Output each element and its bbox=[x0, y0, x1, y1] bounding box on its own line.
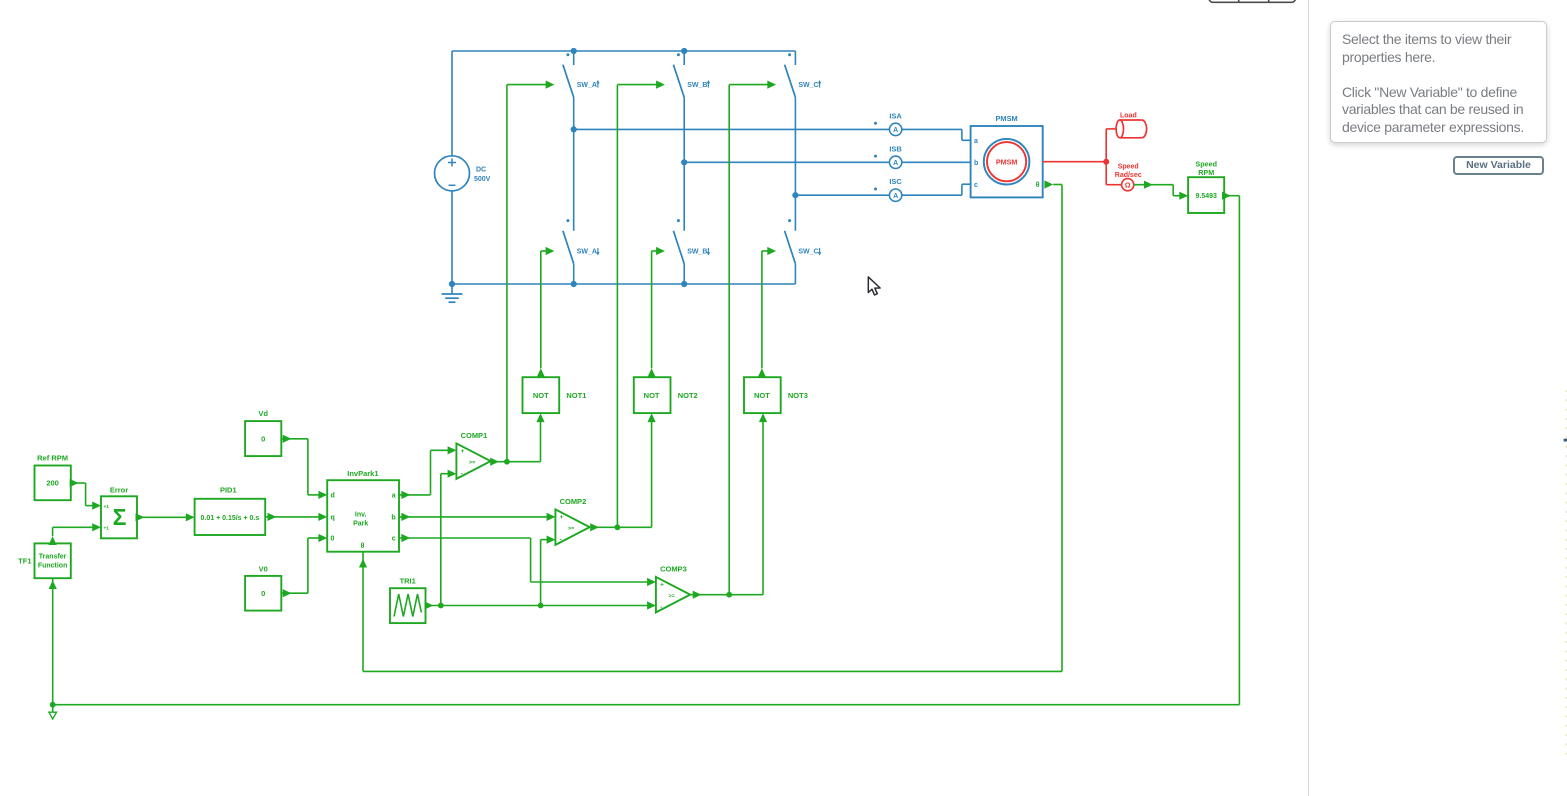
switch SW_C&#8593; top bbox=[785, 51, 822, 97]
switch SW_B&#8593; top bbox=[673, 51, 710, 97]
svg-text:9.5493: 9.5493 bbox=[1195, 193, 1217, 200]
wire to load bbox=[1106, 129, 1116, 162]
node shaft junction bbox=[1103, 159, 1109, 165]
source V0 0 bbox=[245, 564, 281, 610]
wire InvPark1 b to COMP2 bbox=[399, 513, 555, 521]
svg-text:PID1: PID1 bbox=[220, 486, 237, 495]
source Ref RPM 200 bbox=[35, 453, 71, 500]
wire feedback to TF1 bbox=[49, 579, 57, 705]
svg-text:DC: DC bbox=[476, 166, 486, 173]
node bottom bus / leg A bbox=[571, 281, 577, 287]
svg-text:+1: +1 bbox=[104, 526, 110, 532]
summer Error bbox=[101, 486, 137, 539]
triangle source TRI1 bbox=[390, 577, 426, 624]
wire NOT3 output to gate bbox=[758, 247, 776, 377]
comparator COMP1 bbox=[456, 431, 490, 479]
wire NOT1 output to gate bbox=[537, 247, 555, 377]
wire top DC bus bbox=[452, 50, 795, 52]
svg-text:SW_C: SW_C bbox=[798, 248, 818, 255]
wire V0 to InvPark1 0 bbox=[281, 534, 327, 597]
wire TF1 to Error bbox=[49, 523, 102, 545]
svg-text:Speed: Speed bbox=[1118, 164, 1139, 171]
toolbar fragment top right bbox=[1209, 0, 1296, 2]
wire Error to PID1 bbox=[136, 513, 195, 521]
svg-text:SW_A: SW_A bbox=[577, 82, 597, 89]
node phase b tap bbox=[681, 159, 687, 165]
wire InvPark1 a to COMP1 bbox=[399, 446, 456, 499]
mouse cursor bbox=[868, 277, 880, 295]
svg-text:b: b bbox=[974, 160, 978, 167]
svg-text:NOT2: NOT2 bbox=[678, 391, 698, 400]
svg-text:a: a bbox=[974, 138, 978, 145]
svg-text:RPM: RPM bbox=[1198, 168, 1214, 177]
svg-text:-: - bbox=[560, 537, 562, 544]
svg-text:500V: 500V bbox=[474, 176, 491, 183]
svg-text:+: + bbox=[461, 448, 465, 455]
node COMP3 output bbox=[726, 592, 732, 598]
node COMP1 output bbox=[504, 459, 510, 465]
node top bus / leg B bbox=[681, 48, 687, 54]
inverter NOT1 bbox=[523, 377, 587, 413]
wire speed sensor output bbox=[1134, 181, 1188, 200]
wire COMP1 to NOT1 bbox=[536, 413, 544, 461]
switch SW_B&#8595; bottom bbox=[673, 219, 710, 284]
svg-text:+1: +1 bbox=[104, 504, 110, 510]
svg-text:q: q bbox=[331, 514, 335, 521]
svg-text:NOT: NOT bbox=[533, 391, 549, 400]
wire COMP3 output to SW_C up gate bbox=[690, 81, 776, 599]
wire speed feedback bbox=[53, 192, 1240, 705]
node phase a tap bbox=[571, 126, 577, 132]
wire phase c bbox=[795, 184, 970, 195]
svg-text:NOT: NOT bbox=[754, 391, 770, 400]
wire Ref RPM to Error bbox=[70, 479, 101, 510]
wire COMP3 to NOT3 bbox=[759, 413, 767, 594]
wire phase b bbox=[684, 161, 970, 163]
svg-text:PMSM: PMSM bbox=[996, 114, 1018, 123]
svg-text:θ: θ bbox=[1036, 182, 1040, 189]
motor U1 PMSM bbox=[971, 114, 1043, 198]
svg-text:COMP3: COMP3 bbox=[660, 565, 687, 574]
svg-text:ISA: ISA bbox=[889, 111, 902, 120]
wire leg SW_B mid bbox=[683, 97, 685, 231]
svg-text:0: 0 bbox=[331, 536, 335, 543]
node top bus / leg A bbox=[571, 48, 577, 54]
svg-text:-: - bbox=[461, 471, 463, 478]
svg-text:TRI1: TRI1 bbox=[400, 577, 416, 586]
switch SW_A&#8595; bottom bbox=[563, 219, 600, 284]
svg-text:A: A bbox=[893, 193, 898, 200]
meter Speed RPM bbox=[1188, 160, 1224, 213]
svg-text:c: c bbox=[974, 182, 978, 189]
svg-text:+: + bbox=[560, 514, 564, 521]
svg-text:ISB: ISB bbox=[889, 144, 902, 153]
wire COMP2 to NOT2 bbox=[648, 413, 656, 527]
switch SW_A&#8593; top bbox=[563, 51, 600, 97]
dc source DC 500V bbox=[435, 51, 491, 284]
svg-text:0: 0 bbox=[261, 434, 265, 443]
svg-text:a: a bbox=[392, 492, 396, 499]
svg-text:b: b bbox=[391, 514, 395, 521]
svg-text:>=: >= bbox=[568, 526, 574, 532]
svg-text:-: - bbox=[660, 604, 662, 611]
wire NOT2 output to gate bbox=[648, 247, 665, 377]
svg-text:COMP1: COMP1 bbox=[461, 431, 488, 440]
svg-text:Σ: Σ bbox=[113, 504, 127, 530]
svg-text:Vd: Vd bbox=[258, 409, 268, 418]
svg-text:PMSM: PMSM bbox=[996, 157, 1018, 166]
svg-text:>=: >= bbox=[469, 460, 475, 466]
wire PID1 to InvPark1 q bbox=[265, 513, 327, 521]
speed sensor Speed Rad/sec bbox=[1115, 164, 1142, 191]
svg-text:200: 200 bbox=[46, 479, 59, 488]
svg-text:Load: Load bbox=[1120, 113, 1137, 120]
svg-text:SW_B: SW_B bbox=[687, 82, 707, 89]
svg-text:0.01 + 0.15/s + 0.s: 0.01 + 0.15/s + 0.s bbox=[201, 515, 260, 522]
terminator arrow down bbox=[49, 705, 57, 719]
svg-text:ISC: ISC bbox=[889, 177, 902, 186]
source Vd 0 bbox=[245, 409, 281, 456]
svg-text:NOT1: NOT1 bbox=[566, 391, 586, 400]
svg-text:d: d bbox=[331, 492, 335, 499]
svg-text:V0: V0 bbox=[259, 564, 268, 573]
inverter NOT2 bbox=[634, 377, 698, 413]
wire phase a bbox=[574, 129, 971, 140]
wire theta feedback to InvPark1 bbox=[359, 180, 1062, 671]
svg-text:A: A bbox=[893, 127, 898, 134]
switch SW_C&#8595; bottom bbox=[785, 219, 822, 284]
svg-text:c: c bbox=[392, 536, 396, 543]
svg-text:COMP2: COMP2 bbox=[560, 497, 587, 506]
transform block InvPark1 bbox=[327, 469, 399, 552]
svg-text:SW_B: SW_B bbox=[687, 248, 707, 255]
svg-text:InvPark1: InvPark1 bbox=[347, 469, 378, 478]
wire to speed sensor bbox=[1106, 162, 1122, 185]
node bottom bus / DC bbox=[449, 281, 455, 287]
node phase c tap bbox=[792, 192, 798, 198]
transfer function TF1 bbox=[18, 543, 71, 578]
wire carrier to COMP2 minus bbox=[541, 536, 556, 606]
wire carrier to COMP1 minus bbox=[441, 470, 457, 606]
ammeter ISC bbox=[874, 177, 902, 201]
svg-text:Ω: Ω bbox=[1125, 182, 1131, 189]
svg-text:SW_A: SW_A bbox=[577, 248, 597, 255]
wire TRI1 carrier bbox=[425, 601, 656, 609]
node feedback junction bbox=[50, 702, 56, 708]
ammeter ISB bbox=[874, 144, 902, 168]
inverter NOT3 bbox=[744, 377, 808, 413]
svg-text:θ: θ bbox=[361, 543, 365, 550]
wire leg SW_A mid bbox=[573, 97, 575, 231]
svg-text:>=: >= bbox=[669, 593, 675, 599]
svg-text:Inv.: Inv. bbox=[355, 511, 367, 518]
wire leg SW_C mid bbox=[794, 97, 796, 231]
svg-text:TF1: TF1 bbox=[18, 557, 31, 566]
svg-text:Rad/sec: Rad/sec bbox=[1115, 172, 1142, 179]
wire InvPark1 c to COMP3 bbox=[399, 534, 656, 586]
minimap dots right edge bbox=[1564, 390, 1567, 755]
comparator COMP3 bbox=[656, 565, 690, 613]
ammeter ISA bbox=[874, 111, 902, 135]
comparator COMP2 bbox=[555, 497, 589, 545]
wire PMSM shaft bbox=[1043, 161, 1107, 163]
node TRI1 junction 2 bbox=[538, 603, 544, 609]
svg-text:SW_C: SW_C bbox=[798, 82, 818, 89]
svg-text:Function: Function bbox=[38, 562, 68, 569]
wire Vd to InvPark1 d bbox=[281, 435, 327, 499]
svg-text:NOT3: NOT3 bbox=[788, 391, 808, 400]
svg-text:NOT: NOT bbox=[644, 391, 660, 400]
wire bottom DC bus bbox=[452, 283, 795, 285]
wire COMP2 output to SW_B up gate bbox=[589, 81, 665, 532]
svg-text:A: A bbox=[893, 160, 898, 167]
svg-text:Error: Error bbox=[110, 486, 128, 495]
load (inertia cylinder) bbox=[1116, 113, 1147, 138]
node COMP2 output bbox=[615, 524, 621, 530]
svg-text:Park: Park bbox=[353, 520, 368, 527]
node TRI1 junction 1 bbox=[438, 603, 444, 609]
svg-text:Ref RPM: Ref RPM bbox=[37, 453, 68, 462]
node bottom bus / leg B bbox=[681, 281, 687, 287]
ground bbox=[442, 284, 463, 302]
svg-text:Transfer: Transfer bbox=[39, 553, 67, 560]
svg-text:0: 0 bbox=[261, 589, 265, 598]
wire COMP1 output to SW_A up gate bbox=[490, 81, 554, 466]
pid PID1 bbox=[195, 486, 266, 535]
svg-text:+: + bbox=[660, 582, 664, 589]
